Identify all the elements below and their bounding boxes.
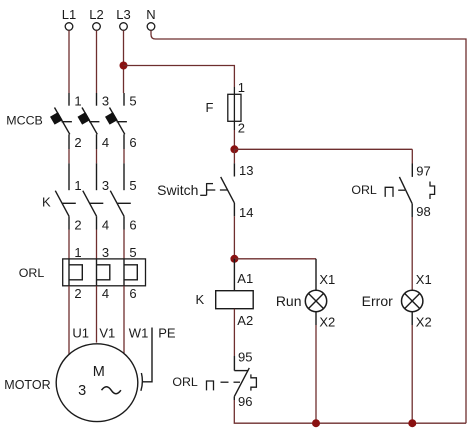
terminal N — [146, 7, 155, 30]
wire Run lamp to bottom rail — [315, 325, 317, 423]
wire L1 to MCCB — [68, 30, 70, 93]
svg-text:ORL: ORL — [351, 183, 377, 197]
svg-text:F: F — [206, 100, 214, 115]
svg-text:4: 4 — [102, 135, 109, 150]
wire ORL to motor W1 — [123, 286, 125, 353]
ORL NC contact 95-96 — [234, 356, 249, 400]
node B junction below fuse — [230, 145, 238, 153]
svg-text:1: 1 — [74, 94, 81, 109]
terminal L2 — [89, 7, 103, 30]
svg-text:L1: L1 — [62, 7, 76, 22]
breaker MCCB pole 2 — [78, 93, 100, 149]
svg-text:M: M — [93, 364, 105, 380]
svg-text:MCCB: MCCB — [6, 114, 42, 128]
svg-text:2: 2 — [74, 286, 81, 301]
svg-text:Run: Run — [276, 293, 302, 309]
wire K to ORL pole 2 — [96, 230, 98, 259]
svg-text:1: 1 — [238, 80, 245, 95]
motor PE terminal bar — [141, 373, 142, 391]
svg-text:2: 2 — [238, 121, 245, 136]
svg-text:3: 3 — [102, 245, 109, 260]
svg-text:3: 3 — [78, 383, 86, 399]
wire N to right rail — [151, 30, 466, 423]
svg-text:N: N — [146, 7, 155, 22]
wire MCCB to K pole 3 — [123, 149, 125, 163]
breaker MCCB pole 3 — [105, 93, 127, 149]
wire ORL to motor U1 — [68, 286, 70, 354]
overload relay ORL box — [63, 259, 146, 286]
wire MCCB to K pole 2 — [96, 149, 98, 163]
wire node A to coil K — [233, 259, 235, 291]
svg-text:13: 13 — [239, 163, 253, 178]
svg-text:97: 97 — [416, 163, 430, 178]
wire ORL to motor V1 — [96, 286, 98, 343]
lamp Error — [402, 290, 423, 325]
wire MCCB to K pole 1 — [68, 149, 70, 163]
coil K — [216, 291, 254, 309]
ORL heater pole 2 — [97, 259, 110, 286]
wire L3 tap to fuse — [124, 66, 235, 88]
wire Error lamp to bottom rail — [411, 325, 413, 423]
svg-text:3: 3 — [102, 178, 109, 193]
svg-text:X2: X2 — [416, 314, 432, 329]
ORL NO contact 97-98 — [399, 164, 412, 218]
svg-text:5: 5 — [129, 94, 136, 109]
svg-text:A2: A2 — [237, 313, 253, 328]
fuse F — [228, 87, 241, 130]
contactor K pole 3 — [110, 163, 131, 229]
svg-text:2: 2 — [74, 135, 81, 150]
svg-text:96: 96 — [238, 394, 252, 409]
wire PE to motor frame — [143, 328, 152, 382]
svg-text:2: 2 — [74, 218, 81, 233]
svg-text:4: 4 — [102, 218, 109, 233]
switch S1 manual actuator — [200, 183, 228, 195]
wire L3 to MCCB — [123, 30, 125, 93]
svg-text:K: K — [196, 292, 205, 307]
wire coil K to ORL NC — [233, 309, 235, 356]
svg-text:ORL: ORL — [19, 266, 45, 280]
motor M1 circle — [56, 344, 138, 422]
svg-text:Error: Error — [362, 293, 393, 309]
wire node B to ORL NO branch — [234, 148, 412, 150]
svg-text:Switch: Switch — [157, 182, 198, 198]
svg-text:1: 1 — [74, 245, 81, 260]
svg-text:14: 14 — [239, 205, 253, 220]
switch S1 contact 13-14 — [221, 163, 235, 216]
wire ORL NO to Error lamp — [411, 217, 413, 290]
wire L2 to MCCB — [96, 30, 98, 93]
node A junction A1 — [230, 255, 238, 263]
node L3 tap junction — [120, 62, 128, 70]
wire switch to node A — [233, 216, 235, 258]
svg-text:3: 3 — [102, 94, 109, 109]
svg-text:95: 95 — [238, 350, 252, 365]
contactor K pole 2 — [83, 163, 104, 229]
node rail-Run junction — [312, 419, 320, 427]
ORL NC thermal actuator — [207, 381, 241, 390]
lamp Run — [305, 259, 326, 325]
svg-text:ORL: ORL — [172, 375, 198, 389]
ORL heater pole 3 — [124, 259, 137, 286]
svg-text:W1: W1 — [129, 326, 149, 341]
wire fuse to node B — [233, 130, 235, 149]
svg-text:A1: A1 — [237, 271, 253, 286]
breaker MCCB pole 1 — [50, 93, 72, 149]
svg-text:6: 6 — [129, 218, 136, 233]
wire K to ORL pole 1 — [68, 230, 70, 259]
terminal L3 — [116, 7, 130, 30]
svg-text:5: 5 — [129, 178, 136, 193]
wire node B to switch — [233, 149, 235, 163]
node rail-Error junction — [408, 419, 416, 427]
ORL NO release hook — [430, 182, 435, 200]
svg-text:1: 1 — [74, 178, 81, 193]
svg-text:6: 6 — [129, 286, 136, 301]
wire rail to ORL NO — [411, 149, 413, 163]
svg-text:L3: L3 — [116, 7, 130, 22]
wire K to ORL pole 3 — [123, 230, 125, 259]
svg-text:K: K — [42, 195, 51, 210]
svg-text:4: 4 — [102, 286, 109, 301]
svg-text:X2: X2 — [319, 314, 335, 329]
svg-text:V1: V1 — [99, 326, 115, 341]
ORL NO thermal actuator — [385, 187, 405, 197]
terminal L1 — [62, 7, 76, 30]
motor AC sine symbol — [102, 387, 121, 394]
svg-text:PE: PE — [158, 326, 176, 341]
wire node A to Run lamp — [234, 258, 316, 260]
svg-text:X1: X1 — [416, 272, 432, 287]
ORL heater pole 1 — [69, 259, 82, 286]
contactor K pole 1 — [55, 163, 76, 229]
ORL NC release hook — [251, 374, 257, 390]
svg-text:6: 6 — [129, 135, 136, 150]
svg-text:98: 98 — [416, 204, 430, 219]
svg-text:L2: L2 — [89, 7, 103, 22]
svg-text:U1: U1 — [72, 326, 89, 341]
svg-text:X1: X1 — [319, 272, 335, 287]
svg-text:MOTOR: MOTOR — [4, 378, 50, 392]
svg-text:5: 5 — [129, 245, 136, 260]
wire 96 to bottom rail — [234, 400, 466, 423]
